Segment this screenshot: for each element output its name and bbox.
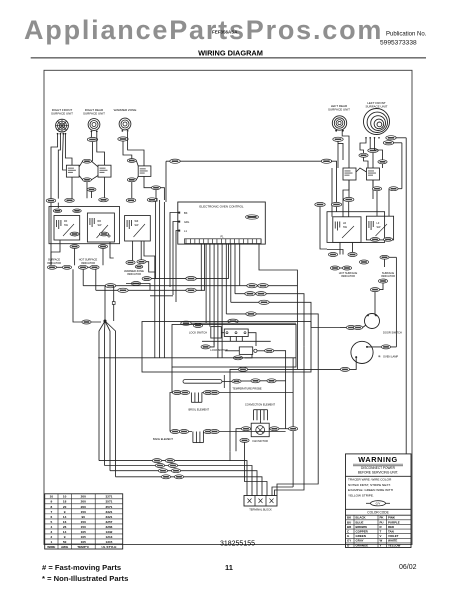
wire H302 right xyxy=(231,302,311,327)
svg-text:TERMINAL BLOCK: TERMINAL BLOCK xyxy=(249,508,272,512)
svg-text:20: 20 xyxy=(63,505,67,509)
connector rind 3 xyxy=(330,266,339,270)
wire chicken feed xyxy=(104,286,106,321)
wire node mid2 xyxy=(113,304,115,321)
connector H285 l xyxy=(105,284,115,288)
connector H323 b xyxy=(228,319,238,323)
mid rails xyxy=(155,200,165,358)
wire feeder 4 xyxy=(116,477,263,496)
connector f1a xyxy=(152,459,161,463)
connector H313 xyxy=(246,312,256,316)
connector under warmer xyxy=(118,137,128,141)
wire H285 drop xyxy=(82,269,84,285)
connector warmer low xyxy=(131,282,140,286)
svg-text:T: T xyxy=(380,530,382,534)
connector top wire right xyxy=(321,159,331,163)
svg-text:CONVECTION ELEMENT: CONVECTION ELEMENT xyxy=(245,402,276,406)
svg-text:3257: 3257 xyxy=(106,520,113,524)
svg-text:105: 105 xyxy=(81,530,86,534)
svg-text:200: 200 xyxy=(81,500,86,504)
connector sw1 low xyxy=(87,188,96,192)
switch RF a xyxy=(66,165,79,177)
svg-text:BROIL ELEMENT: BROIL ELEMENT xyxy=(188,407,209,411)
svg-text:9: 9 xyxy=(64,535,66,539)
connector conv low xyxy=(240,438,249,442)
wire gauge table xyxy=(45,494,123,549)
right rail mid2 xyxy=(292,358,294,487)
connector under RR xyxy=(87,137,97,141)
svg-text:W: W xyxy=(380,539,383,543)
svg-text:BLUE: BLUE xyxy=(356,520,364,524)
electronic oven control U1 xyxy=(178,202,265,244)
lock switch box xyxy=(211,327,222,338)
wire long top xyxy=(166,160,327,162)
connector H302 xyxy=(259,300,269,304)
svg-text:3571: 3571 xyxy=(106,500,113,504)
svg-text:GRL: GRL xyxy=(184,220,190,224)
wire bake right xyxy=(203,431,285,433)
svg-text:GY: GY xyxy=(347,539,351,543)
wire top right link xyxy=(331,161,337,202)
connector sw1 top xyxy=(83,159,92,163)
connector top wire left xyxy=(170,159,180,163)
connector H290 xyxy=(186,288,196,292)
svg-text:EXAMPLE: GREEN WIRE WITH: EXAMPLE: GREEN WIRE WITH xyxy=(348,488,393,492)
svg-text:BLACK: BLACK xyxy=(356,516,367,520)
wire LR down xyxy=(337,141,339,168)
wire rsw b down xyxy=(388,189,390,217)
svg-text:200: 200 xyxy=(81,505,86,509)
convection fan motor M2 xyxy=(251,423,269,437)
connector below box 1 xyxy=(70,245,79,249)
wire right rail c xyxy=(405,138,407,454)
connector bake b xyxy=(179,430,188,434)
svg-text:5995373338: 5995373338 xyxy=(380,40,417,47)
wire LF cluster down xyxy=(364,157,369,168)
broil element xyxy=(191,393,202,403)
connector f2a xyxy=(155,464,164,468)
svg-text:1332: 1332 xyxy=(106,530,113,534)
connector bake a xyxy=(170,430,179,434)
svg-text:150: 150 xyxy=(81,520,86,524)
connector rind 1 xyxy=(328,253,337,257)
connector f2b xyxy=(168,464,177,468)
svg-text:NOTED FIRST, STRIPE NEXT.: NOTED FIRST, STRIPE NEXT. xyxy=(348,483,391,487)
svg-text:3571: 3571 xyxy=(106,505,113,509)
connector H293 a xyxy=(245,292,255,296)
connector r3 xyxy=(344,197,354,201)
svg-text:AppliancePartsPros.com: AppliancePartsPros.com xyxy=(24,15,383,45)
connector LF d xyxy=(378,160,387,164)
connector rsw b xyxy=(389,187,398,191)
wire boxes down2 xyxy=(74,248,76,265)
wire bundle pin c xyxy=(209,244,211,327)
connector H278 b xyxy=(142,277,151,281)
connector r1 xyxy=(315,202,325,206)
surface unit LR xyxy=(332,116,346,132)
svg-text:Publication No.: Publication No. xyxy=(386,31,427,37)
label surface indicator left xyxy=(47,258,61,265)
wire sw ov down a xyxy=(86,182,88,199)
connector sw1 bottom xyxy=(83,178,92,182)
svg-text:WHITE: WHITE xyxy=(388,539,397,543)
wire right down rail xyxy=(374,292,376,313)
connector bake c xyxy=(203,430,212,434)
wire boxes down3 xyxy=(102,248,104,265)
surface switch RF box xyxy=(54,216,80,241)
wire rsw b feed xyxy=(398,188,402,190)
wire bundle pin f xyxy=(221,244,223,358)
wire boxes down1 xyxy=(51,240,60,265)
wire LF down a xyxy=(369,138,371,148)
svg-text:BU: BU xyxy=(347,520,351,524)
connector above left boxes 4 xyxy=(126,198,136,202)
svg-text:105: 105 xyxy=(81,535,86,539)
bake element xyxy=(193,432,204,443)
connector conv rail xyxy=(289,427,298,431)
label surface indicator right xyxy=(381,271,395,278)
wire EOC GRL xyxy=(173,222,179,296)
wire RR right xyxy=(97,132,105,165)
switch RF b xyxy=(98,165,111,177)
connector f4a xyxy=(161,475,170,479)
wire r1 down xyxy=(320,207,327,249)
connector sw2 bottom xyxy=(127,178,136,182)
connector broil d xyxy=(210,391,219,395)
svg-text:TEMPERATURE PROBE: TEMPERATURE PROBE xyxy=(232,386,261,390)
connector conv right xyxy=(270,427,279,431)
EOC terminal strip P1 xyxy=(185,236,262,244)
wire rsw a up xyxy=(372,180,374,187)
connector broil a xyxy=(172,391,181,395)
label hot surface indicator left xyxy=(79,258,98,265)
connector oven lamp b xyxy=(340,367,349,371)
indicator lamp L4 xyxy=(90,265,99,269)
junction node mid xyxy=(112,302,115,305)
left rail A xyxy=(50,203,52,266)
svg-text:WARMER ZONE: WARMER ZONE xyxy=(114,108,137,112)
wire broil left up xyxy=(171,367,173,393)
wire bundle pin l xyxy=(204,244,206,291)
svg-text:5: 5 xyxy=(50,520,52,524)
wire rsw a down xyxy=(376,191,378,217)
wire bundle pin j xyxy=(239,244,241,286)
connector right low2 xyxy=(370,288,379,292)
wire LR b xyxy=(342,131,349,168)
connector lamp left xyxy=(238,367,247,371)
connector in box 1 xyxy=(70,232,79,236)
wire bundle pin h xyxy=(230,244,232,303)
wire bundle pin d xyxy=(213,244,215,339)
wire bake run xyxy=(170,431,192,433)
wire LF left jog xyxy=(360,138,366,153)
connector inner top 2 xyxy=(73,209,82,213)
wire r3 down xyxy=(348,202,350,217)
svg-text:11: 11 xyxy=(225,563,233,572)
connector conv left xyxy=(241,427,250,431)
connector H285 a xyxy=(247,284,257,288)
wire sw2 link xyxy=(136,161,138,166)
indicator lamp L1 xyxy=(47,265,56,269)
diagram frame xyxy=(44,70,412,544)
svg-text:SURFACE UNIT: SURFACE UNIT xyxy=(51,112,73,116)
svg-text:WIRING DIAGRAM: WIRING DIAGRAM xyxy=(198,48,263,57)
wire y249 right xyxy=(327,250,343,255)
wire lamp return xyxy=(229,451,231,460)
wire feeder conv xyxy=(245,442,268,496)
wire boxes down7 xyxy=(144,241,155,278)
connector lock a xyxy=(201,345,210,349)
svg-text:LR: LR xyxy=(343,222,346,225)
wire bundle pin g xyxy=(225,244,227,314)
connector lock b xyxy=(265,349,274,353)
connector warmer ind 3 xyxy=(135,265,143,269)
wire feeder 2 xyxy=(105,466,253,497)
wire feeder 3 xyxy=(110,471,257,496)
EOC pin BK xyxy=(178,211,188,215)
svg-text:GREEN: GREEN xyxy=(356,534,366,538)
svg-text:18: 18 xyxy=(63,500,67,504)
surface unit RF xyxy=(56,119,69,135)
connector bake d xyxy=(210,430,219,434)
svg-text:TEMP°C: TEMP°C xyxy=(77,545,90,549)
wire sw row down a xyxy=(71,177,73,200)
svg-text:16: 16 xyxy=(63,520,67,524)
connector sw2 top xyxy=(127,159,136,163)
oven lamp DS1 xyxy=(351,341,373,363)
svg-text:YELLOW: YELLOW xyxy=(388,543,401,547)
connector door sw b xyxy=(353,326,362,330)
junction chicken foot xyxy=(99,320,116,477)
wire lock bar drops xyxy=(214,337,242,346)
connector inner top 1 xyxy=(53,209,62,213)
label warmer zone indicator xyxy=(124,269,144,276)
convection element xyxy=(254,410,268,421)
wire bundle pin a xyxy=(200,244,202,291)
wire rind xyxy=(340,267,343,269)
svg-text:SURFACE UNIT: SURFACE UNIT xyxy=(365,105,387,109)
wire EOC right xyxy=(259,244,297,286)
wire probe xyxy=(241,380,251,382)
connector oven lamp xyxy=(381,345,390,349)
svg-text:ELECTRONIC OVEN CONTROL: ELECTRONIC OVEN CONTROL xyxy=(199,205,244,209)
connector warmer ind 1 xyxy=(126,261,135,265)
svg-text:10: 10 xyxy=(63,495,67,499)
svg-text:3321: 3321 xyxy=(106,515,113,519)
svg-text:4: 4 xyxy=(50,525,52,529)
svg-text:3: 3 xyxy=(50,530,52,534)
svg-text:14: 14 xyxy=(63,515,67,519)
surface switch WZ box xyxy=(125,216,151,242)
wire sw row down c xyxy=(144,176,152,187)
wire broil right xyxy=(202,392,293,394)
connector H293 b xyxy=(256,292,266,296)
terminal block TB1 xyxy=(244,496,277,507)
wire right rail b xyxy=(401,143,403,189)
svg-text:SURFACE UNIT: SURFACE UNIT xyxy=(328,108,350,112)
surface switch RR box xyxy=(87,213,114,242)
wire sw row down d xyxy=(161,188,165,200)
svg-text:INDICATOR: INDICATOR xyxy=(127,272,141,276)
svg-text:9: 9 xyxy=(50,500,52,504)
wire bundle pin k xyxy=(228,244,230,279)
svg-text:LOCK MOTOR: LOCK MOTOR xyxy=(210,348,228,352)
svg-text:150: 150 xyxy=(81,525,86,529)
wire LF down b xyxy=(375,138,383,160)
connector rind 2 xyxy=(348,253,357,257)
svg-text:WZ: WZ xyxy=(135,220,139,223)
wire lr box feed a xyxy=(343,180,349,217)
wire r2 down xyxy=(336,207,338,212)
wire boxes down6 xyxy=(140,241,142,260)
connector lock c xyxy=(233,356,242,360)
wire long mid xyxy=(98,357,296,359)
wire right box down2 xyxy=(352,242,354,252)
svg-text:INDICATOR: INDICATOR xyxy=(341,274,355,278)
wire feeder 1 xyxy=(99,461,247,496)
svg-text:3266: 3266 xyxy=(106,525,113,529)
wire right low xyxy=(380,283,383,290)
connector below right box 1 xyxy=(370,238,379,242)
connector rind 4 xyxy=(342,266,351,270)
svg-text:UL STYLE: UL STYLE xyxy=(101,545,116,549)
svg-text:PINK: PINK xyxy=(388,516,396,520)
connector broil c xyxy=(203,391,212,395)
lock switch contacts box xyxy=(224,329,248,337)
svg-text:8: 8 xyxy=(50,505,52,509)
wire feeder right B xyxy=(275,347,305,496)
connector warmer ind 2 xyxy=(137,260,146,264)
wire r mid down xyxy=(384,259,386,267)
connector H290 b xyxy=(118,288,128,292)
connector r2 xyxy=(331,202,341,206)
svg-text:26: 26 xyxy=(63,525,67,529)
right rail mid1 xyxy=(285,358,287,429)
wire boxes down5 xyxy=(132,241,134,260)
svg-text:G/Y: G/Y xyxy=(376,502,381,506)
connector H285 b xyxy=(258,284,268,288)
wire RF d xyxy=(63,135,67,171)
wire H293 right xyxy=(235,294,304,347)
wire H295 left xyxy=(150,295,173,297)
wire oven lamp right xyxy=(367,346,396,348)
connector below right box 2 xyxy=(383,238,392,242)
wire sw row down b xyxy=(104,177,106,200)
svg-text:14: 14 xyxy=(63,530,67,534)
connector f4b xyxy=(174,475,183,479)
wire sw1 link2 xyxy=(79,176,83,180)
svg-text:VIOLET: VIOLET xyxy=(388,534,399,538)
svg-text:3321: 3321 xyxy=(106,510,113,514)
header rule xyxy=(31,57,426,59)
svg-text:7: 7 xyxy=(50,510,52,514)
connector LF a xyxy=(386,136,396,140)
wire RR down xyxy=(92,142,94,162)
wire H323 xyxy=(180,322,235,324)
junction node sw xyxy=(154,198,157,201)
svg-text:TAN: TAN xyxy=(388,530,394,534)
wire EOC BK xyxy=(170,213,179,288)
wire feeder right C xyxy=(277,369,318,495)
svg-text:FEF356ASA: FEF356ASA xyxy=(212,30,238,35)
svg-text:Y: Y xyxy=(380,543,382,547)
door switch S1 xyxy=(365,314,380,329)
connector broil b xyxy=(180,391,189,395)
wire lr box feed b xyxy=(331,212,333,217)
connector probe b xyxy=(251,379,260,383)
svg-text:INDICATOR: INDICATOR xyxy=(47,261,61,265)
svg-text:OVEN LAMP: OVEN LAMP xyxy=(383,355,398,359)
wire lamps xyxy=(57,266,63,268)
wire bundle pin b xyxy=(205,244,207,324)
door lock module box xyxy=(172,325,296,368)
svg-text:9: 9 xyxy=(64,510,66,514)
svg-text:# = Fast-moving Parts: # = Fast-moving Parts xyxy=(42,563,121,572)
svg-text:3271: 3271 xyxy=(106,495,113,499)
switch LF small xyxy=(367,168,380,180)
tracer wire example symbol xyxy=(366,501,390,506)
svg-text:AWG: AWG xyxy=(61,545,69,549)
connector above left boxes 3 xyxy=(99,198,109,202)
svg-text:PURPLE: PURPLE xyxy=(388,520,400,524)
wire H290 xyxy=(96,289,205,291)
svg-text:LOCK SWITCH: LOCK SWITCH xyxy=(189,331,207,335)
wire lr rail xyxy=(331,168,333,212)
svg-text:318255155: 318255155 xyxy=(220,541,255,548)
surface switch LF box xyxy=(366,216,393,240)
wire top corner xyxy=(165,161,167,202)
connector below box 2 xyxy=(98,245,107,249)
wire lr rail2 xyxy=(338,143,343,160)
svg-text:BROWN: BROWN xyxy=(356,525,367,529)
connector f1b xyxy=(165,459,174,463)
wire right sw down2 xyxy=(372,180,374,199)
connector rsw a xyxy=(372,187,381,191)
warning box xyxy=(346,454,412,548)
svg-text:* = Non-Illustrated Parts: * = Non-Illustrated Parts xyxy=(42,574,128,583)
wire LF b right xyxy=(393,142,402,144)
svg-text:FAN MOTOR: FAN MOTOR xyxy=(253,439,268,443)
surface unit LF xyxy=(364,109,390,135)
svg-text:BEFORE SERVICING UNIT.: BEFORE SERVICING UNIT. xyxy=(358,470,398,474)
svg-text:COPPER: COPPER xyxy=(356,530,369,534)
svg-text:WIRE: WIRE xyxy=(47,545,55,549)
wire warmer low xyxy=(126,284,150,291)
connector H323 a xyxy=(181,321,191,325)
connector right mid xyxy=(380,255,389,259)
svg-text:INDICATOR: INDICATOR xyxy=(381,274,395,278)
connector in box 2 xyxy=(99,232,108,236)
indicator lamp L2 xyxy=(62,265,71,269)
lock motor M1 xyxy=(239,347,257,355)
wire oven lamp rail xyxy=(395,257,397,347)
svg-text:50: 50 xyxy=(63,540,67,544)
wire sw1 link xyxy=(79,161,83,167)
svg-text:06/02: 06/02 xyxy=(399,564,417,571)
wire sw ov down c xyxy=(91,191,93,198)
svg-text:2: 2 xyxy=(50,535,52,539)
svg-text:GRAY: GRAY xyxy=(356,539,364,543)
svg-text:DOOR SWITCH: DOOR SWITCH xyxy=(383,331,402,335)
connector right low xyxy=(378,279,387,283)
wire RR left xyxy=(90,132,92,137)
svg-text:RR: RR xyxy=(98,220,102,223)
wire conv xyxy=(236,420,289,451)
wire EOC L1 xyxy=(176,231,179,303)
color code table xyxy=(346,509,412,547)
wire bake left corner xyxy=(170,393,172,432)
wire LF bundle xyxy=(372,153,374,168)
